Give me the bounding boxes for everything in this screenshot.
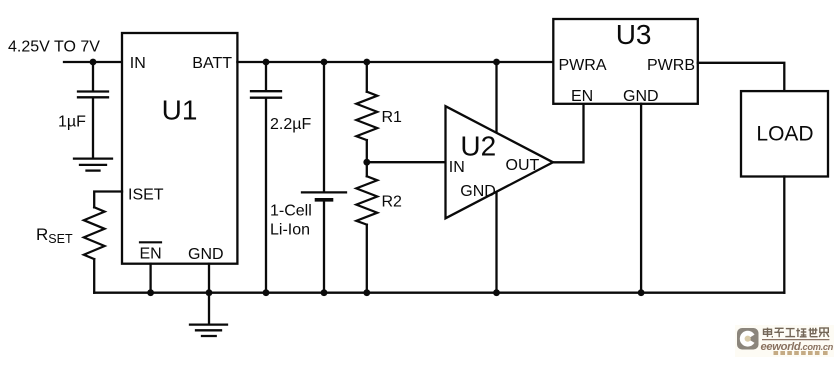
ground G2 stem — [208, 293, 210, 324]
node rail-U3 — [638, 289, 645, 296]
battery BT1 1-Cell Li-Ion — [302, 191, 346, 193]
svg-text:OUT: OUT — [506, 157, 540, 174]
svg-text:IN: IN — [130, 55, 146, 72]
svg-text:U1: U1 — [162, 95, 198, 126]
resistor R1 — [356, 92, 377, 140]
svg-text:GND: GND — [460, 183, 496, 200]
node rail-GND — [206, 289, 213, 296]
svg-text:U2: U2 — [460, 131, 496, 162]
svg-text:PWRB: PWRB — [647, 57, 695, 74]
ground G1 — [74, 157, 112, 159]
svg-text:EN: EN — [571, 88, 593, 105]
svg-text:GND: GND — [623, 88, 659, 105]
svg-text:R2: R2 — [382, 194, 403, 211]
logo underline — [762, 339, 829, 341]
capacitor C2 2.2uF — [251, 90, 281, 92]
svg-text:2.2µF: 2.2µF — [270, 116, 311, 133]
svg-text:Li-Ion: Li-Ion — [270, 222, 310, 239]
ground G2 — [190, 323, 227, 325]
wire ISET to RSET — [94, 192, 122, 208]
wire BT1 to bottom rail — [323, 202, 325, 293]
node rail-R2 — [363, 289, 370, 296]
logo text 电子工程世界 — [764, 328, 829, 338]
resistor R2 — [356, 176, 377, 224]
wire C2 to bottom rail — [265, 99, 267, 293]
logo tagline — [774, 351, 828, 355]
svg-text:BATT: BATT — [192, 55, 232, 72]
node BATT-C2 — [263, 59, 270, 66]
watermark eeworld logo — [735, 325, 834, 357]
node rail-BT1 — [321, 289, 328, 296]
wire U3 GND to bottom rail — [640, 104, 642, 293]
svg-text:1µF: 1µF — [58, 114, 86, 131]
wire to BT1 — [323, 62, 325, 191]
wire U2 supply/ground vertical — [495, 62, 497, 293]
svg-text:EN: EN — [140, 246, 162, 263]
IC U3 — [553, 19, 698, 104]
svg-text:4.25V TO 7V: 4.25V TO 7V — [8, 39, 100, 56]
node BATT-U2supply — [493, 59, 500, 66]
wire LOAD to bottom rail — [783, 177, 785, 293]
wire VIN down to C1 — [92, 62, 94, 90]
wire U1 EN pin down — [149, 264, 151, 293]
wire U1 GND pin down — [208, 264, 210, 293]
svg-text:ISET: ISET — [128, 187, 164, 204]
wire divider to U2 IN — [367, 161, 446, 163]
svg-text:PWRA: PWRA — [559, 57, 607, 74]
node rail-EN — [147, 289, 154, 296]
wire PWRB to LOAD — [698, 63, 785, 91]
svg-text:IN: IN — [449, 159, 465, 176]
wire to R1 — [366, 62, 368, 92]
wire BATT rail — [237, 61, 553, 63]
svg-text:1-Cell: 1-Cell — [270, 203, 312, 220]
wire input to U1 IN — [64, 61, 122, 63]
wire U2 OUT to U3 EN — [553, 104, 584, 163]
svg-text:R1: R1 — [382, 109, 403, 126]
logo icon — [737, 328, 759, 350]
svg-text:U3: U3 — [616, 19, 652, 50]
node divider — [363, 159, 370, 166]
IC U1 — [122, 33, 237, 264]
node VIN junction — [90, 59, 97, 66]
node rail-C2 — [263, 289, 270, 296]
resistor RSET — [84, 207, 105, 259]
wire C1 to ground — [92, 98, 94, 157]
LOAD box — [741, 91, 828, 176]
wire R1 to divider node — [366, 140, 368, 176]
svg-text:LOAD: LOAD — [756, 123, 813, 146]
node rail-U2 — [493, 289, 500, 296]
op-amp U2 — [446, 106, 554, 218]
wire R2 to bottom rail — [366, 225, 368, 293]
wire to C2 — [265, 62, 267, 90]
capacitor C1 1uF — [78, 90, 108, 92]
node BATT-BT1 — [321, 59, 328, 66]
wire ground rail — [94, 292, 784, 294]
svg-text:GND: GND — [188, 246, 224, 263]
wire RSET to bottom rail — [93, 259, 95, 293]
node BATT-R1 — [363, 59, 370, 66]
